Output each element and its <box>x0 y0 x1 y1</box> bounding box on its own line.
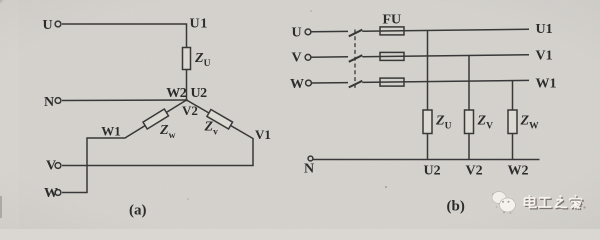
svg-text:U1: U1 <box>190 17 209 32</box>
svg-text:V2: V2 <box>466 164 483 179</box>
svg-text:(a): (a) <box>129 203 147 219</box>
svg-text:V1: V1 <box>255 127 271 142</box>
svg-text:U2: U2 <box>424 164 441 179</box>
svg-text:N: N <box>304 162 314 177</box>
svg-text:V2: V2 <box>182 103 198 118</box>
svg-text:U: U <box>43 18 53 33</box>
svg-text:W: W <box>290 77 304 92</box>
svg-text:V1: V1 <box>536 49 553 64</box>
svg-text:V: V <box>292 51 302 66</box>
svg-text:W2: W2 <box>166 86 187 101</box>
svg-text:N: N <box>44 95 54 110</box>
svg-text:W2: W2 <box>508 164 529 179</box>
svg-text:(b): (b) <box>447 199 465 215</box>
svg-text:U2: U2 <box>191 86 208 101</box>
svg-text:U: U <box>292 26 302 41</box>
svg-text:W1: W1 <box>101 124 121 139</box>
svg-text:U1: U1 <box>536 22 553 37</box>
svg-text:W1: W1 <box>536 77 557 92</box>
svg-text:W: W <box>44 186 58 201</box>
svg-text:V: V <box>46 159 56 174</box>
svg-text:FU: FU <box>383 13 402 28</box>
